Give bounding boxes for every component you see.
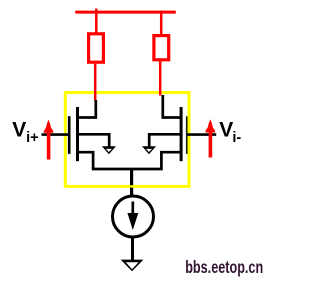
M1 body arrow (open triangle down) [102,146,116,154]
wire: M2 drain vertical (black) [161,95,164,118]
svg-text:V: V [12,118,26,141]
wire: M1 drain vertical (black) [94,100,97,118]
wire: M2 drain stub horizontal [162,116,181,119]
transistor M1 gate bar [68,116,71,154]
current source arrow shaft [131,202,134,217]
wire: tail node down to current source (upper part) [130,169,133,185]
wire: R1 bottom to M1 drain (red) [94,64,97,101]
wire: VDD supply rail (red) [75,11,176,14]
wire: tail node through yellow edge to current source [130,188,133,197]
resistor R1 (left load) [89,34,104,62]
input arrow Vi+ (red, up) [44,120,54,133]
wire: M1 source stub [78,152,94,169]
resistor R2 (right load) [154,36,169,60]
svg-text:i+: i+ [26,130,38,146]
wire: R2 bottom to M2 drain (red) [159,61,162,95]
transistor M2 gate bar [186,116,188,154]
wire: Vi- input to M2 gate [187,133,216,136]
wire: M2 source stub [161,152,181,169]
wire: M1 drain stub horizontal [78,116,98,119]
wire: common source rail [92,168,163,171]
input arrow Vi- (red, up) [206,119,216,132]
wire: rail to left resistor R1 (red) [95,9,98,33]
current source I1 (circle) [113,196,154,237]
wire: rail to right resistor R2 (red) [160,11,163,35]
yellow highlight box around differential pair [65,93,189,187]
svg-text:bbs.eetop.cn: bbs.eetop.cn [185,258,263,278]
ground symbol (open triangle) [121,260,144,272]
transistor M1 channel bar [76,107,79,161]
wire: M2 body stub [149,134,181,147]
M2 body arrow (open triangle down) [142,146,156,154]
svg-text:V: V [219,118,233,141]
wire: current source to ground [131,237,134,260]
current source arrowhead (filled, down) [127,213,138,230]
svg-text:i-: i- [232,130,241,146]
wire: M1 body stub [78,134,110,147]
transistor M2 channel bar [180,107,183,161]
wire: Vi+ input to M1 gate [42,133,69,136]
